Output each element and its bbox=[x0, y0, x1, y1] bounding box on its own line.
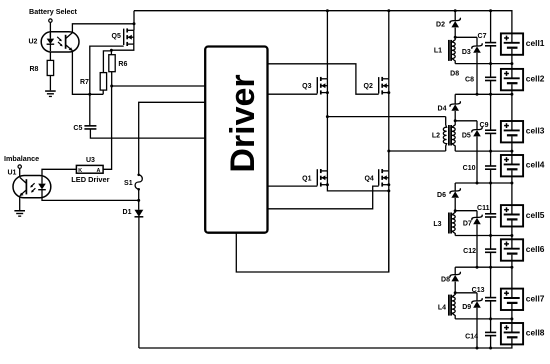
svg-text:cell6: cell6 bbox=[526, 244, 545, 254]
wire driver pin to Q2 gate bbox=[268, 64, 379, 94]
svg-text:C14: C14 bbox=[465, 334, 478, 341]
inductor L4 bbox=[438, 293, 455, 319]
node bbox=[454, 36, 457, 39]
svg-text:cell3: cell3 bbox=[526, 126, 545, 136]
battery cell2 bbox=[501, 69, 545, 90]
wire U1 LED anode bbox=[42, 169, 76, 176]
svg-text:Q3: Q3 bbox=[302, 83, 311, 90]
svg-text:D3: D3 bbox=[462, 49, 471, 56]
ground bbox=[45, 90, 56, 97]
transistor Q3 bbox=[302, 77, 327, 95]
wire driver bottom pin bbox=[236, 191, 388, 272]
svg-text:D5: D5 bbox=[462, 133, 471, 140]
ic U3 LED Driver bbox=[71, 157, 109, 184]
svg-text:C12: C12 bbox=[463, 248, 476, 255]
node bbox=[88, 93, 91, 96]
svg-text:C11: C11 bbox=[477, 205, 490, 212]
svg-text:LED Driver: LED Driver bbox=[71, 175, 109, 184]
node bbox=[454, 119, 457, 122]
node B vertical bbox=[388, 93, 390, 171]
svg-text:D6: D6 bbox=[437, 192, 446, 199]
svg-text:C10: C10 bbox=[463, 165, 476, 172]
wire U1 emitter bbox=[19, 196, 21, 210]
node bbox=[133, 22, 136, 25]
wire C5 bottom bbox=[90, 129, 205, 138]
svg-text:U1: U1 bbox=[8, 170, 17, 177]
svg-text:D4: D4 bbox=[438, 106, 447, 113]
wire D1 to bottom rail bbox=[138, 217, 140, 348]
svg-text:R6: R6 bbox=[118, 61, 127, 68]
wire cell pins bbox=[511, 55, 513, 323]
node bbox=[387, 91, 390, 94]
wire Q5 gate bbox=[90, 46, 124, 126]
svg-text:Q1: Q1 bbox=[302, 176, 311, 183]
wire Q3 drain bbox=[326, 11, 328, 79]
zener D8 bbox=[441, 267, 460, 283]
wire D9 anode bbox=[476, 308, 478, 348]
wire row cell7-cell8 bbox=[455, 317, 513, 320]
wire Q5 source bbox=[111, 44, 133, 50]
svg-text:C8: C8 bbox=[465, 76, 474, 83]
capacitor C10 bbox=[463, 165, 497, 172]
wire D3 anode bbox=[476, 53, 478, 94]
svg-text:L1: L1 bbox=[434, 48, 442, 55]
battery cell7 bbox=[501, 289, 545, 310]
wire D5 anode bbox=[476, 137, 478, 184]
svg-text:cell2: cell2 bbox=[526, 74, 545, 84]
wire Q5 drain bbox=[133, 11, 135, 31]
wire capacitor column bbox=[490, 11, 492, 348]
battery cell1 bbox=[501, 33, 545, 54]
transistor Q4 bbox=[364, 169, 388, 187]
node bbox=[110, 49, 113, 52]
node bbox=[454, 209, 457, 212]
wire bottom rail bbox=[139, 344, 512, 348]
wire U1 LED cathode bbox=[42, 198, 139, 201]
wire driver pin to Q1 gate bbox=[268, 185, 318, 187]
node bbox=[326, 115, 329, 118]
capacitor C12 bbox=[463, 248, 496, 255]
wire Q4 source bbox=[388, 185, 390, 272]
diode D1 bbox=[123, 209, 144, 217]
ground bbox=[14, 210, 25, 217]
node bbox=[489, 9, 492, 12]
svg-text:cell5: cell5 bbox=[526, 210, 545, 220]
svg-text:Imbalance: Imbalance bbox=[4, 154, 39, 163]
zener D9 bbox=[462, 293, 482, 311]
capacitor C13 bbox=[472, 287, 497, 301]
resistor R7 bbox=[80, 73, 107, 91]
wire U2 emitter bbox=[72, 51, 103, 95]
wire D7 anode bbox=[476, 224, 478, 267]
wire driver pin to Q3 gate bbox=[268, 93, 318, 95]
svg-text:D2: D2 bbox=[436, 22, 445, 29]
node bbox=[454, 291, 457, 294]
svg-text:S1: S1 bbox=[124, 180, 133, 187]
svg-text:C13: C13 bbox=[472, 287, 485, 294]
svg-text:Q2: Q2 bbox=[364, 83, 373, 90]
fuse S1 bbox=[124, 172, 142, 193]
wire to driver pin bbox=[112, 85, 206, 87]
capacitor C5 bbox=[73, 125, 96, 132]
node bbox=[476, 347, 479, 350]
terminal Imbalance bbox=[4, 154, 39, 169]
node bbox=[137, 199, 140, 202]
inductor L3 bbox=[433, 211, 455, 236]
svg-text:L4: L4 bbox=[438, 305, 446, 312]
transformer L2 bbox=[432, 117, 455, 152]
wire Q2 drain bbox=[388, 11, 390, 79]
capacitor C8 bbox=[465, 76, 496, 83]
svg-text:D8: D8 bbox=[450, 70, 459, 77]
wire top rail bbox=[134, 11, 512, 34]
node bbox=[326, 9, 329, 12]
wire bbox=[455, 28, 477, 38]
svg-text:D8: D8 bbox=[441, 277, 450, 284]
wire node A to L2 bbox=[327, 116, 445, 118]
wire bbox=[455, 282, 477, 293]
svg-text:C9: C9 bbox=[480, 122, 489, 129]
wire R6 top bbox=[110, 50, 112, 55]
svg-text:U3: U3 bbox=[86, 157, 95, 164]
svg-text:D1: D1 bbox=[123, 209, 132, 216]
svg-text:cell4: cell4 bbox=[526, 160, 545, 170]
svg-text:U2: U2 bbox=[29, 38, 38, 45]
node bbox=[387, 150, 390, 153]
wire bbox=[455, 198, 477, 211]
wire U2 collector bbox=[72, 24, 134, 33]
battery cell3 bbox=[501, 121, 545, 142]
svg-text:R7: R7 bbox=[80, 79, 89, 86]
optocoupler U1 bbox=[8, 170, 51, 198]
wire bbox=[49, 52, 51, 60]
svg-text:C7: C7 bbox=[478, 33, 487, 40]
wire R7 top bbox=[103, 51, 111, 73]
svg-text:cell1: cell1 bbox=[526, 38, 545, 48]
node bbox=[387, 189, 390, 192]
svg-text:L2: L2 bbox=[432, 132, 440, 139]
svg-text:D7: D7 bbox=[463, 220, 472, 227]
battery cell6 bbox=[501, 239, 545, 260]
zener D7 bbox=[463, 211, 482, 228]
svg-text:Battery Select: Battery Select bbox=[29, 7, 78, 16]
svg-text:Driver: Driver bbox=[224, 74, 262, 172]
svg-text:A: A bbox=[97, 168, 101, 174]
svg-text:C5: C5 bbox=[73, 125, 82, 132]
wire R7 bottom bbox=[102, 90, 104, 94]
wire to U3 anode bbox=[103, 86, 112, 169]
inductor L1 bbox=[434, 37, 455, 63]
zener D3 bbox=[462, 37, 482, 56]
wire bbox=[138, 193, 140, 210]
resistor R8 bbox=[30, 60, 54, 75]
node bbox=[387, 9, 390, 12]
wire row cell4-cell5 bbox=[455, 182, 513, 185]
node bbox=[326, 183, 329, 186]
zener D2 bbox=[436, 11, 460, 29]
wire row cell3-cell4 bbox=[455, 150, 513, 153]
wire R6 bottom bbox=[111, 72, 113, 86]
wire driver to S1 bbox=[139, 102, 206, 172]
svg-text:cell8: cell8 bbox=[526, 328, 545, 338]
wire bbox=[19, 168, 21, 176]
battery cell5 bbox=[501, 205, 545, 226]
svg-text:D9: D9 bbox=[462, 304, 471, 311]
battery cell8 bbox=[501, 323, 545, 344]
wire bbox=[455, 111, 477, 121]
battery cell4 bbox=[501, 155, 545, 176]
node bbox=[326, 91, 329, 94]
zener D4 bbox=[438, 94, 461, 112]
svg-text:K: K bbox=[78, 168, 82, 174]
capacitor C9 bbox=[480, 122, 497, 133]
label D8 bbox=[450, 70, 459, 77]
capacitor C7 bbox=[478, 33, 497, 46]
node A vertical bbox=[326, 93, 328, 171]
svg-text:L3: L3 bbox=[433, 221, 441, 228]
wire node B to L2 bbox=[389, 150, 446, 152]
node bbox=[110, 85, 113, 88]
zener D6 bbox=[437, 183, 460, 199]
wire bbox=[49, 22, 51, 37]
svg-text:Q4: Q4 bbox=[364, 176, 373, 183]
terminal Battery Select bbox=[29, 7, 78, 22]
wire driver pin to Q4 gate bbox=[268, 186, 379, 209]
node bbox=[489, 347, 492, 350]
wire row cell5-cell6 bbox=[455, 234, 513, 237]
capacitor C11 bbox=[477, 205, 496, 217]
svg-text:Q5: Q5 bbox=[112, 33, 121, 40]
svg-text:R8: R8 bbox=[30, 66, 39, 73]
ic U5 Driver bbox=[205, 47, 267, 233]
transistor Q5 bbox=[112, 28, 134, 46]
transistor Q2 bbox=[364, 77, 389, 95]
wire bbox=[49, 76, 51, 91]
resistor R6 bbox=[109, 55, 128, 72]
svg-text:cell7: cell7 bbox=[526, 293, 545, 303]
wire Q1 source bbox=[327, 185, 388, 191]
wire row cell1-cell2 bbox=[455, 62, 513, 65]
node bbox=[387, 183, 390, 186]
node bbox=[454, 9, 457, 12]
zener D5 bbox=[462, 121, 482, 140]
wire row cell6-cell7 bbox=[455, 266, 513, 269]
optocoupler U2 bbox=[29, 32, 80, 52]
transistor Q1 bbox=[302, 169, 327, 187]
capacitor C14 bbox=[465, 332, 496, 340]
wire row cell2-cell3 bbox=[455, 93, 513, 96]
